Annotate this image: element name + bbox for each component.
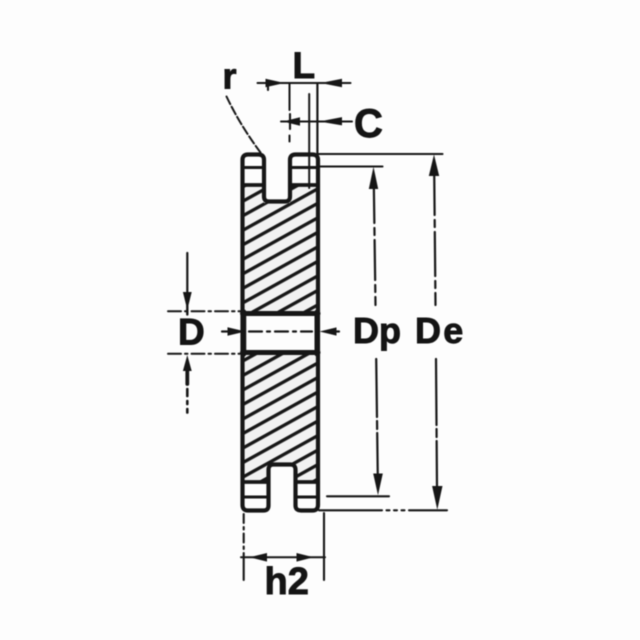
De bottom arrow: [432, 486, 442, 510]
Dp top arrow: [369, 167, 378, 189]
bore left wall heavy: [241, 312, 247, 354]
centerline right segment: [334, 330, 339, 332]
centerline axis dash-dot: [249, 330, 312, 332]
svg-text:L: L: [293, 45, 316, 86]
D upper arrow: [183, 292, 192, 310]
C dimension line: [281, 121, 352, 123]
De top arrow: [429, 155, 439, 177]
C right arrow: [319, 117, 342, 125]
bore bottom edge: [243, 350, 319, 355]
svg-text:h2: h2: [265, 561, 309, 603]
D dimension line upper: [186, 253, 188, 296]
tooth shoulder line top-left: [243, 166, 265, 169]
De extension line bottom: [319, 509, 447, 511]
centerline left segment: [222, 330, 227, 332]
D dimension line lower: [185, 370, 189, 384]
tooth root line bottom-right: [296, 480, 319, 484]
h2 right arrow: [297, 553, 314, 562]
tooth root line top-left: [243, 183, 265, 187]
Dp extension line bottom: [327, 495, 389, 497]
tooth root line top-right: [290, 183, 318, 187]
Dp extension line top: [319, 165, 383, 167]
centerline left arrow: [228, 327, 246, 335]
hatched section lower block: [244, 354, 317, 481]
extension line row center: [308, 94, 310, 188]
tooth shoulder line top-right: [290, 166, 318, 169]
bore top edge: [243, 311, 319, 316]
De dimension line: [434, 171, 435, 305]
centerline right arrow: [320, 327, 337, 335]
h2 right extension: [323, 513, 325, 580]
extension line right edge: [316, 84, 318, 153]
L extension stub: [267, 83, 269, 90]
D dimension lower extension dash-dot: [168, 353, 241, 355]
svg-text:D: D: [178, 312, 205, 353]
h2 left arrow: [250, 553, 268, 562]
tooth shoulder line bottom-right: [296, 496, 319, 499]
r leader line: [227, 97, 261, 153]
D dimension upper extension dash-dot: [168, 310, 241, 312]
Dp bottom arrow: [373, 474, 383, 496]
De extension line top: [319, 153, 443, 155]
C left arrow: [283, 117, 300, 126]
tooth shoulder line bottom-left: [243, 496, 269, 499]
L right arrow: [321, 79, 343, 88]
hatched section upper block: [244, 187, 317, 313]
L left arrow: [266, 79, 285, 88]
L extension line: [289, 83, 291, 142]
C extension tick: [289, 114, 291, 129]
svg-text:De: De: [415, 310, 465, 351]
D lower arrow: [183, 355, 192, 371]
sprocket outline: [243, 155, 319, 511]
svg-text:r: r: [223, 56, 237, 97]
svg-text:C: C: [354, 102, 383, 146]
h2 left extension: [243, 514, 245, 556]
bore right wall heavy: [315, 312, 320, 354]
Dp dimension line: [374, 183, 376, 305]
svg-text:Dp: Dp: [353, 310, 401, 351]
h2 dimension line: [241, 556, 325, 558]
L dimension line: [258, 82, 351, 84]
tooth root line bottom-left: [243, 480, 269, 484]
